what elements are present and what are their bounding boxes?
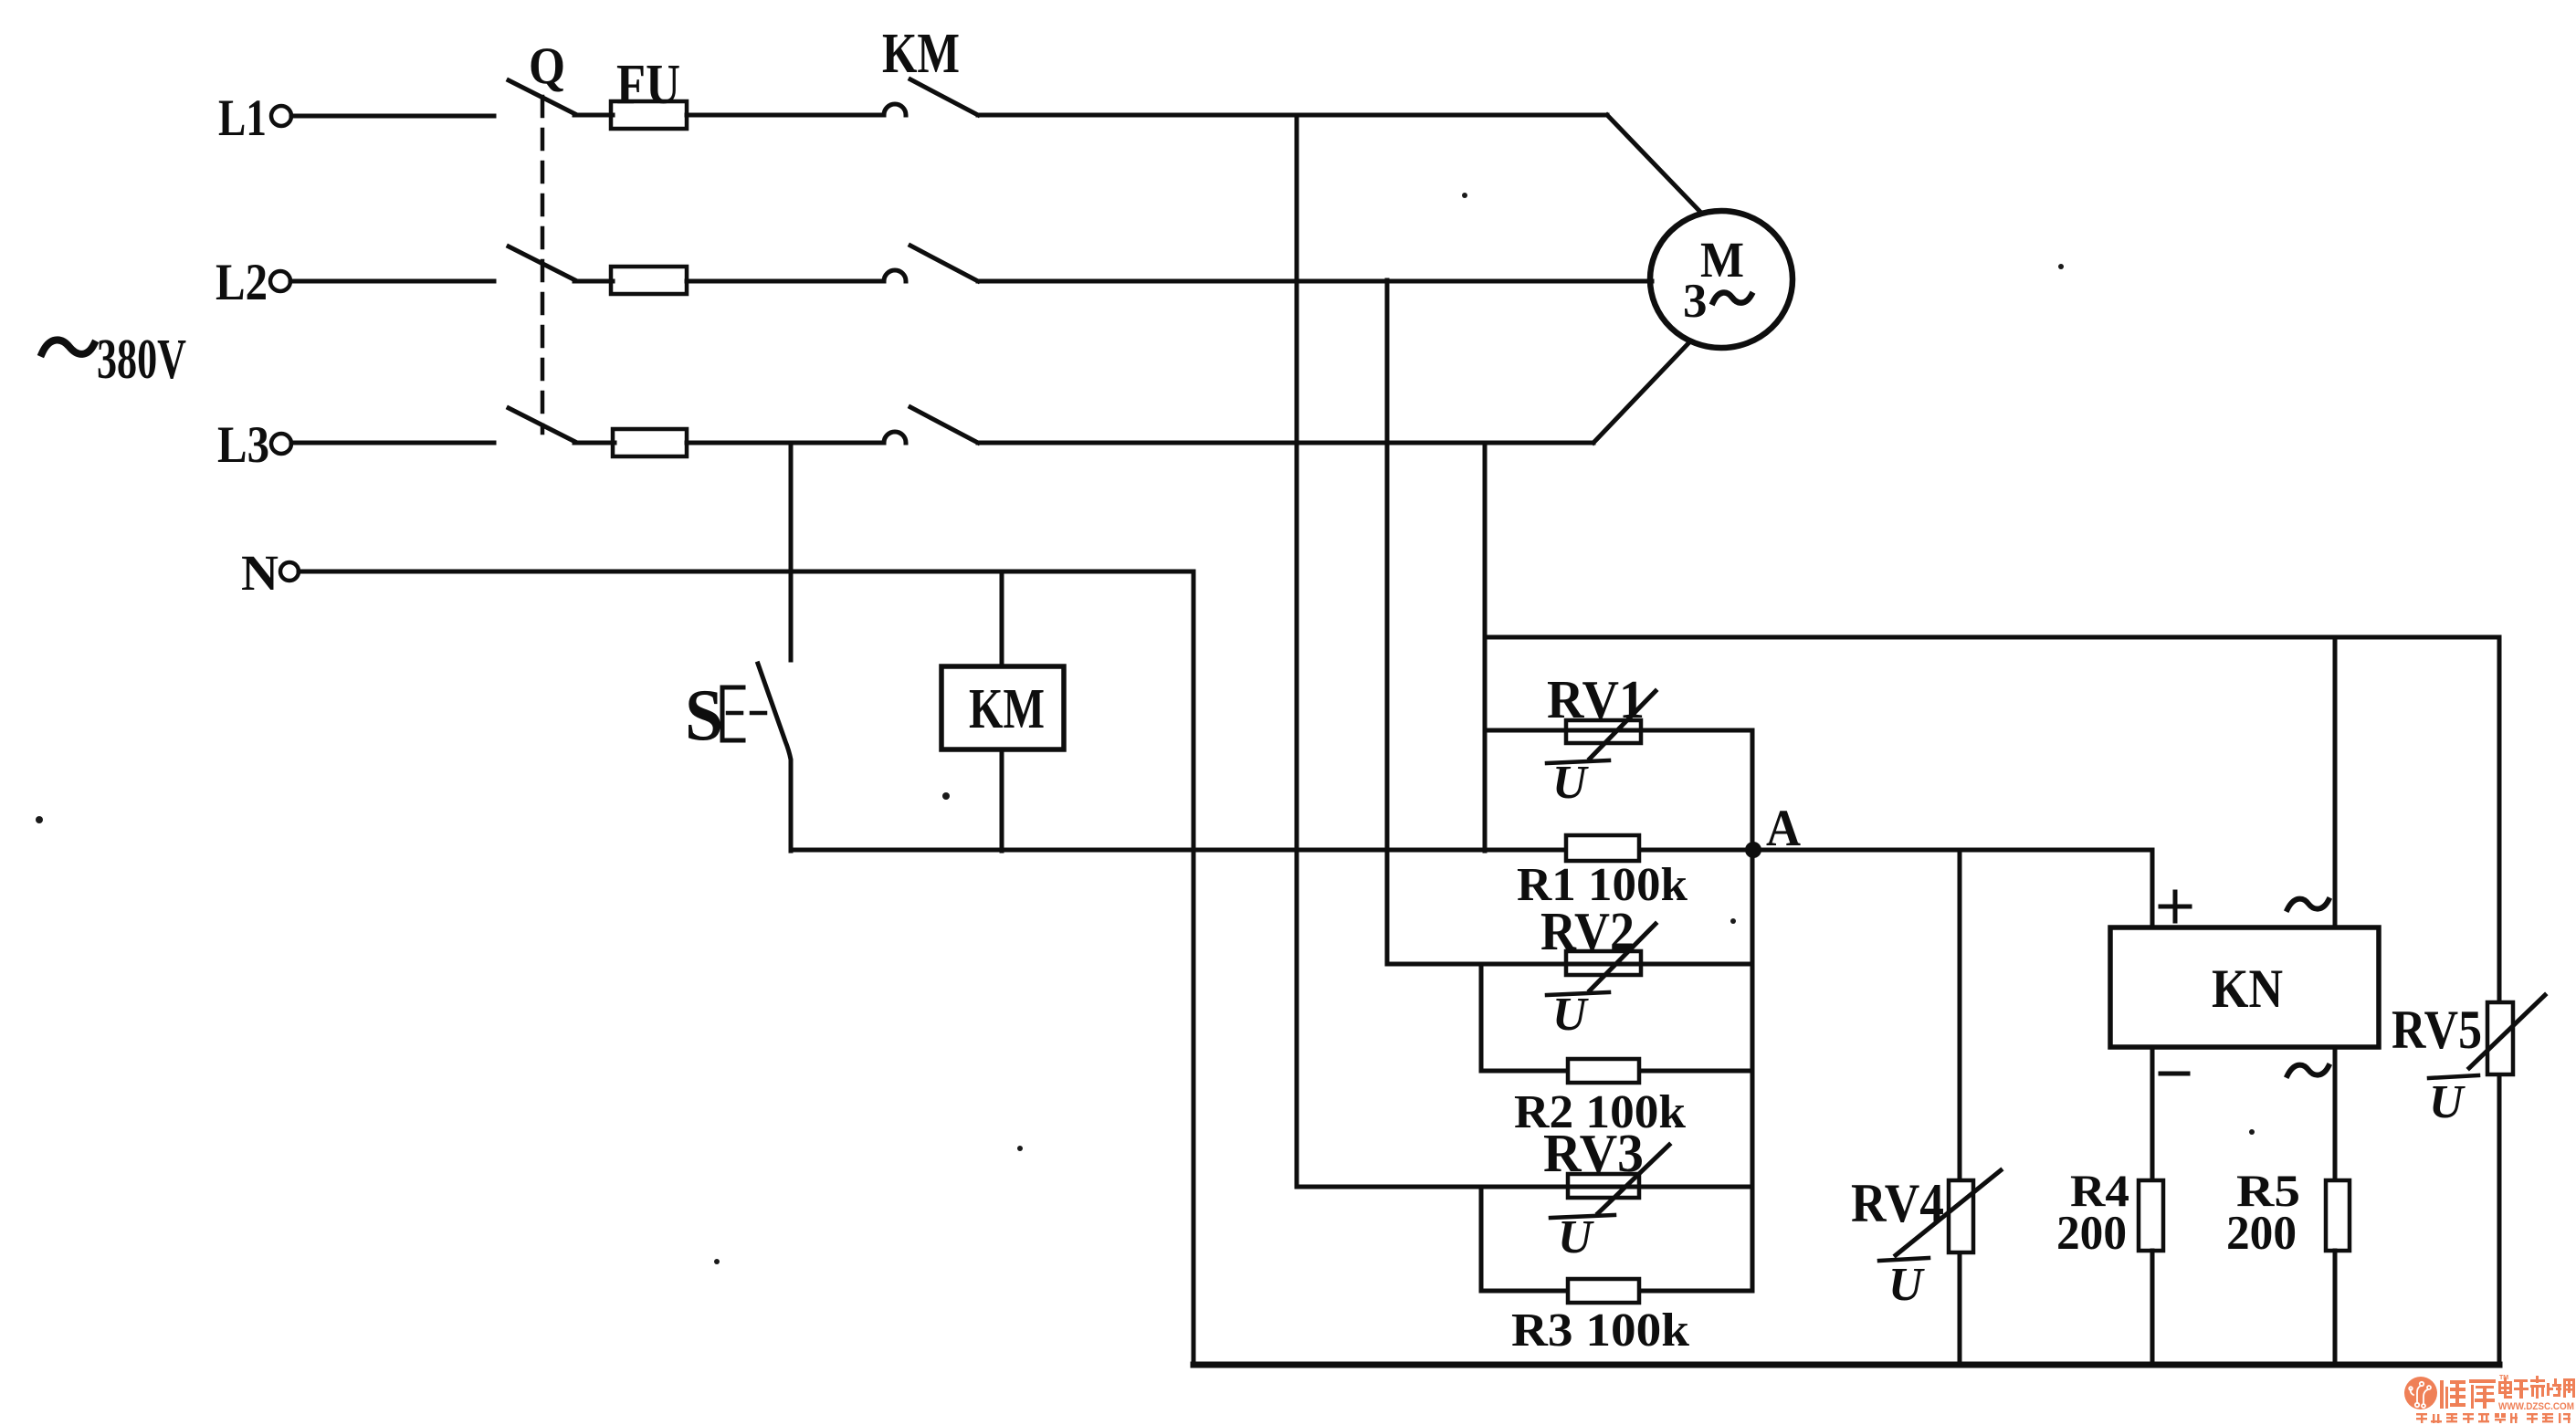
varistor RV2 — [1566, 924, 1656, 990]
node L1 terminal — [271, 106, 291, 126]
svg-text:WWW.DZSC.COM: WWW.DZSC.COM — [2498, 1401, 2574, 1412]
watermark 市 char — [2530, 1376, 2545, 1399]
wire L3 from terminal to switch Q — [291, 441, 494, 445]
wire vertical tap from L2 down to RV2 branch — [1385, 280, 1390, 964]
watermark 维 char — [2440, 1380, 2466, 1409]
resistor R4 label — [2056, 1165, 2129, 1260]
switch Q pole 2 blade — [509, 246, 575, 280]
wire R4 down to bottom rail — [2150, 1251, 2155, 1365]
node A junction dot — [1745, 842, 1761, 858]
svg-text:A: A — [1766, 800, 1801, 857]
KM contact 1 stationary hook — [884, 104, 906, 115]
KN ac tilde bottom — [2287, 1065, 2329, 1075]
scan speckles — [36, 193, 2255, 1264]
svg-text:L2: L2 — [216, 254, 268, 311]
svg-text:200: 200 — [2056, 1207, 2127, 1260]
varistor RV3 U-bar symbol — [1551, 1211, 1614, 1263]
wire top rail from L3 tap to RV5 — [1485, 635, 2499, 640]
varistor RV4 vertical wire from node line to bottom rail — [1958, 850, 1962, 1365]
resistor R3 — [1568, 1279, 1639, 1303]
svg-text:R3 100k: R3 100k — [1511, 1305, 1689, 1357]
watermark circle icon — [2404, 1377, 2437, 1409]
wire R5 down to bottom rail — [2333, 1251, 2338, 1365]
svg-text:U: U — [1552, 757, 1589, 809]
coil KM vertical from N wire — [1000, 571, 1004, 666]
resistor R5 label — [2226, 1165, 2300, 1260]
varistor RV1 — [1566, 691, 1656, 759]
svg-text:RV2: RV2 — [1540, 901, 1635, 961]
varistor RV2 branch wire — [1387, 962, 1752, 967]
varistor RV5 vertical wire — [2497, 637, 2502, 1365]
svg-text:RV1: RV1 — [1547, 669, 1645, 729]
KN minus sign — [2161, 1072, 2188, 1076]
svg-text:RV5: RV5 — [2392, 1000, 2482, 1060]
wire N horizontal — [299, 570, 1193, 574]
node N terminal — [280, 562, 299, 581]
KN plus sign — [2161, 892, 2190, 921]
svg-text:L1: L1 — [218, 89, 267, 147]
wire KM2 to motor left — [978, 279, 1652, 284]
wire vertical tap from L1 down to RV3 branch — [1295, 115, 1299, 1187]
varistor RV4 U-bar symbol — [1879, 1258, 1929, 1311]
wire node A vertical — [1751, 730, 1755, 1291]
resistor R1 on node line — [1566, 835, 1639, 861]
svg-text:Q: Q — [529, 37, 565, 95]
node L3 terminal — [271, 434, 291, 454]
wire FU1 to KM contact 1 — [687, 113, 884, 118]
svg-text:KM: KM — [882, 23, 960, 85]
coil KM vertical to bottom wire — [1000, 749, 1004, 851]
switch S blade — [758, 664, 791, 851]
KN ac tilde top — [2287, 899, 2329, 909]
varistor RV4 — [1896, 1170, 2001, 1255]
resistor R5 — [2326, 1180, 2350, 1251]
varistor RV1 branch wire — [1485, 728, 1752, 733]
varistor RV2 U-bar symbol — [1547, 989, 1609, 1041]
svg-text:RV3: RV3 — [1543, 1123, 1644, 1183]
fuse FU2 — [611, 267, 687, 294]
wire Q3 to FU3 — [574, 441, 615, 445]
wire R2 branch — [1481, 1069, 1752, 1074]
svg-text:KN: KN — [2212, 959, 2283, 1019]
svg-text:200: 200 — [2226, 1207, 2297, 1260]
wire diagonal L1 into motor — [1607, 115, 1699, 211]
wire vertical tap from L3 fuse down to switch S — [789, 443, 794, 660]
fuse FU1 — [611, 101, 687, 129]
watermark 场 char — [2547, 1378, 2561, 1397]
varistor RV1 U-bar symbol — [1547, 757, 1609, 809]
watermark 网 char — [2563, 1378, 2575, 1398]
switch Q pole 3 blade — [509, 408, 575, 442]
varistor RV3 branch wire — [1297, 1185, 1752, 1189]
KM contact 3 stationary hook — [884, 432, 906, 443]
wire KN ac down to R5 — [2333, 1047, 2338, 1180]
switch Q pole 1 blade — [509, 80, 575, 114]
wire diagonal L3 into motor — [1593, 342, 1689, 443]
KM contact 2 stationary hook — [884, 270, 906, 281]
KM contact 1 blade — [910, 79, 978, 115]
wire KM1 to motor top — [978, 113, 1607, 118]
coil KM box — [941, 666, 1064, 749]
svg-text:KM: KM — [969, 678, 1045, 740]
wire Q1 to FU1 — [574, 113, 613, 118]
watermark 库 char — [2469, 1379, 2496, 1409]
relay KN box — [2110, 927, 2379, 1047]
watermark logo 维库电子市场网 — [2404, 1375, 2575, 1423]
KM contact 3 blade — [910, 407, 978, 443]
wire node line down to KN plus input — [2150, 850, 2155, 927]
motor M 3~ — [1650, 211, 1793, 348]
varistor RV5 — [2469, 995, 2545, 1074]
svg-text:N: N — [241, 545, 279, 601]
wire N vertical down to bottom rail — [1192, 571, 1196, 1365]
svg-text:TM: TM — [2499, 1375, 2508, 1381]
wire KM3 to motor bottom — [978, 441, 1593, 445]
wire vertical tap from L3 down to node line — [1483, 443, 1488, 851]
varistor RV5 U-bar symbol — [2429, 1075, 2478, 1128]
wire R2 left vertical — [1479, 964, 1484, 1071]
svg-text:380V: 380V — [97, 329, 186, 391]
svg-text:U: U — [2429, 1076, 2466, 1128]
svg-text:U: U — [1888, 1259, 1925, 1311]
wire L1 from terminal to switch Q — [291, 114, 494, 119]
KM contact 2 blade — [910, 246, 978, 281]
varistor RV3 — [1568, 1145, 1669, 1213]
resistor R2 — [1568, 1059, 1639, 1083]
svg-text:FU: FU — [616, 54, 680, 116]
svg-text:U: U — [1552, 989, 1589, 1041]
wire bottom rail — [1193, 1362, 2499, 1368]
svg-text:RV4: RV4 — [1851, 1173, 1944, 1233]
wire R3 branch — [1481, 1289, 1752, 1294]
watermark 子 char — [2514, 1379, 2529, 1399]
switch Q mechanical link dashed — [541, 97, 545, 433]
wire L2 from terminal to switch Q — [290, 279, 494, 284]
wire Q2 to FU2 — [574, 279, 613, 284]
svg-text:S: S — [685, 676, 723, 756]
resistor R4 — [2139, 1180, 2163, 1251]
wire R3 left vertical — [1479, 1187, 1484, 1291]
supply ~380V label — [42, 329, 186, 391]
svg-text:L3: L3 — [217, 416, 269, 474]
wire FU2 to KM contact 2 — [687, 279, 884, 284]
watermark slogan 专业电子元器件交易网站 — [2416, 1413, 2571, 1423]
node L2 terminal — [270, 271, 290, 291]
fuse FU3 — [613, 429, 687, 456]
svg-text:3: 3 — [1683, 275, 1708, 328]
svg-text:U: U — [1558, 1211, 1594, 1263]
wire node-A rail horizontal — [791, 848, 2152, 853]
wire top rail down to KN ac input — [2333, 637, 2338, 927]
watermark 电 char — [2498, 1378, 2512, 1399]
wire KN minus down to R4 — [2150, 1047, 2155, 1180]
switch S pushbutton actuator — [722, 687, 775, 740]
wire FU3 to KM contact 3 — [687, 441, 884, 445]
